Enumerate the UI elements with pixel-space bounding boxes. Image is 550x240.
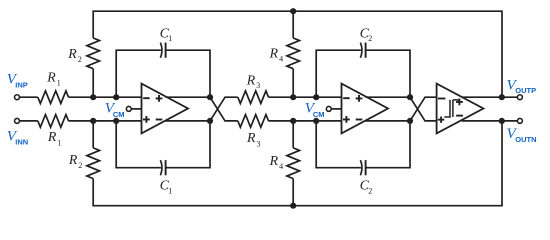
terminal V_OUTN [517,118,522,123]
wire: C1 bottom feedback loop [116,121,210,168]
capacitor C2 (bottom) [360,160,362,175]
op-amp U1 inverting input sign [143,97,150,99]
node: R1/R2 junction top [90,94,96,100]
svg-text:OUTP: OUTP [515,86,536,95]
resistor R1 (bottom) [38,115,69,128]
node: U2 outP [407,94,413,100]
op-amp U2 inverting output sign [356,119,363,121]
svg-text:INN: INN [15,138,28,147]
node: C2 bottom feedback tap [313,118,319,124]
terminal V_INP [15,95,20,100]
node: R4 on bottom rail [290,203,296,209]
wire: R1 bottom to op-amp U1 non-inverting input [69,120,142,122]
wire: U1 output P [166,96,211,98]
wire: top feedback rail [93,11,502,97]
svg-text:1: 1 [168,186,172,195]
wire: U2 output N [366,120,411,122]
svg-text:R: R [68,152,78,167]
wire: R3 bottom to op-amp U2 [269,120,342,122]
capacitor C1 (top) [160,43,162,58]
node: U1 outN [207,118,213,124]
svg-text:2: 2 [78,161,82,170]
svg-text:R: R [246,130,256,145]
comparator U3 inverting input sign [438,98,445,100]
svg-text:3: 3 [256,81,260,90]
wire: U1 output N [166,120,211,122]
resistor R3 (top) [238,91,269,104]
svg-text:4: 4 [279,162,283,171]
wire: V_CM stub into U2 [331,108,341,110]
resistor R2 (bottom feedback) [87,148,100,179]
comparator U3 inverting output sign [456,115,463,117]
wire: U2 output P [366,96,411,98]
wire: comparator output N to V_OUTN [462,120,518,122]
wire: crossover U1 outN to R3 top [210,97,238,121]
node: C1 bottom feedback tap [113,118,119,124]
wire: V_CM stub into U1 [131,108,141,110]
resistor R1 (top) [38,91,69,104]
svg-text:2: 2 [368,186,372,195]
wire: C2 bottom feedback loop [316,121,410,168]
svg-text:R: R [269,153,279,168]
svg-text:INP: INP [15,81,28,90]
svg-text:2: 2 [368,34,372,43]
hysteresis symbol of comparator U3 [444,100,458,117]
wire: crossover U2 outN to comparator [410,97,437,121]
svg-text:2: 2 [78,55,82,64]
resistor R3 (bottom) [238,115,269,128]
svg-text:R: R [269,45,279,60]
op-amp U2 triangle [342,84,389,134]
op-amp U1 non-inverting output sign [156,95,163,102]
svg-text:4: 4 [279,55,283,64]
svg-text:OUTN: OUTN [515,135,536,144]
comparator U3 non-inverting output sign [456,99,463,106]
terminal V_OUTP [517,95,522,100]
node: V_OUTN feedback [499,118,505,124]
node: R4 on top rail [290,8,296,14]
svg-text:R: R [67,46,77,61]
svg-text:1: 1 [57,78,61,87]
svg-text:1: 1 [168,34,172,43]
terminal V_CM (stage 2) [326,106,331,111]
node: U2 outN [407,118,413,124]
svg-text:CM: CM [313,110,325,119]
svg-text:R: R [246,72,256,87]
wire: crossover U2 outP to comparator [410,97,437,121]
node: R3/R4 junction bottom [290,118,296,124]
wire: crossover U1 outP to R3 bottom [210,97,238,121]
node: U1 outP [207,94,213,100]
node: V_OUTP feedback [499,94,505,100]
svg-text:CM: CM [113,110,125,119]
svg-text:3: 3 [257,139,261,148]
comparator U3 triangle [437,84,484,134]
capacitor C1 (bottom) [160,160,162,175]
node: R1/R2 junction bottom [90,118,96,124]
op-amp U2 non-inverting output sign [356,95,363,102]
node: C2 top feedback tap [313,94,319,100]
wire: R1 top to op-amp U1 inverting input [69,96,142,98]
op-amp U1 inverting output sign [156,119,163,121]
comparator U3 non-inverting input sign [438,117,444,123]
wire: bottom feedback rail [93,121,502,206]
op-amp U1 non-inverting input sign [143,116,150,123]
capacitor C2 (top) [360,43,362,58]
op-amp U1 triangle [142,84,189,134]
op-amp U2 non-inverting input sign [343,116,350,123]
resistor R4 (bottom feedback) [287,148,300,179]
wire: C2 top feedback loop [316,50,410,97]
wire: R3 top to op-amp U2 [269,96,342,98]
svg-text:R: R [47,129,57,144]
svg-text:R: R [46,70,56,85]
svg-text:1: 1 [57,138,61,147]
terminal V_INN [15,118,20,123]
wire: C1 top feedback loop [116,50,210,97]
wire: comparator output P to V_OUTP [462,96,518,98]
node: C1 top feedback tap [113,94,119,100]
wire: V_INP lead to R1 [19,96,37,98]
resistor R2 (top feedback) [87,38,100,69]
terminal V_CM (stage 1) [126,106,131,111]
wire: V_INN lead to R1 [19,120,37,122]
resistor R4 (top feedback) [287,38,300,69]
node: R3/R4 junction top [290,94,296,100]
op-amp U2 inverting input sign [343,97,350,99]
